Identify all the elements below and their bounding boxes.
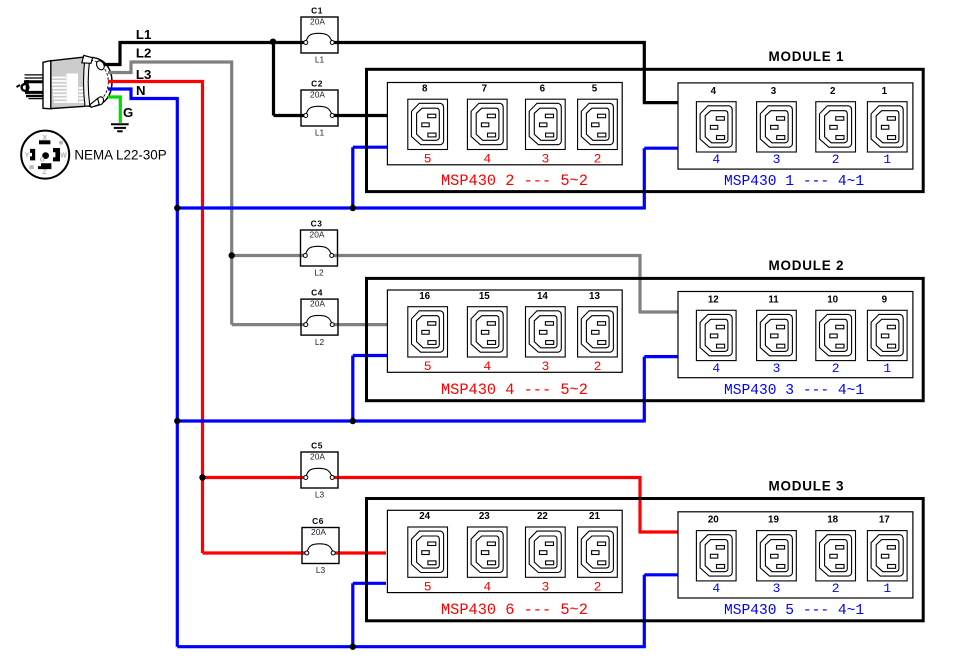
circuit breaker C2 (L1, 20A) bbox=[301, 78, 338, 137]
svg-text:L2: L2 bbox=[314, 268, 324, 278]
junction L2 split to C3/C4 bbox=[229, 252, 235, 258]
svg-text:C6: C6 bbox=[312, 516, 324, 526]
outlet 7 bbox=[467, 99, 507, 149]
svg-text:2: 2 bbox=[832, 361, 840, 376]
svg-text:16: 16 bbox=[419, 291, 430, 302]
svg-text:G: G bbox=[123, 105, 133, 120]
junction N rise to module 3 left bank bbox=[350, 644, 356, 650]
svg-text:1: 1 bbox=[883, 152, 891, 167]
outlet 16 bbox=[408, 307, 448, 357]
junction N at module 2 bus bbox=[174, 418, 180, 424]
svg-text:9: 9 bbox=[882, 294, 888, 305]
svg-text:C1: C1 bbox=[311, 5, 323, 15]
outlet 15 bbox=[467, 307, 507, 357]
module 2 right bank pin numbers (blue) bbox=[712, 361, 891, 376]
svg-text:4: 4 bbox=[712, 581, 720, 596]
svg-text:2: 2 bbox=[594, 152, 602, 167]
wire L3 branch to C6 and module 3 left bank bbox=[203, 476, 387, 553]
svg-text:3: 3 bbox=[541, 359, 549, 374]
outlet 23 bbox=[467, 527, 507, 577]
svg-text:1: 1 bbox=[883, 361, 891, 376]
plug NEMA L22-30P (cord cap illustration) bbox=[17, 55, 113, 108]
svg-text:2: 2 bbox=[832, 152, 840, 167]
svg-text:8: 8 bbox=[422, 83, 428, 94]
svg-text:2: 2 bbox=[594, 579, 602, 594]
svg-text:MODULE 1: MODULE 1 bbox=[769, 49, 845, 64]
circuit breaker C1 (L1, 20A) bbox=[301, 5, 338, 64]
module 2 left outlet bank box bbox=[387, 290, 622, 372]
svg-text:4: 4 bbox=[712, 152, 720, 167]
module 3 enclosure bbox=[367, 499, 924, 621]
svg-text:20A: 20A bbox=[311, 527, 326, 537]
circuit breaker C4 (L2, 20A) bbox=[301, 287, 338, 346]
svg-text:X: X bbox=[42, 135, 47, 142]
svg-text:3: 3 bbox=[541, 579, 549, 594]
svg-text:2: 2 bbox=[830, 86, 836, 97]
module 1 left outlet bank box bbox=[387, 83, 622, 165]
svg-text:20: 20 bbox=[708, 515, 719, 526]
wire L2 (gray) plug to C3 to module 2 right bank bbox=[108, 62, 678, 312]
svg-text:7: 7 bbox=[482, 83, 488, 94]
svg-text:C3: C3 bbox=[311, 218, 323, 228]
svg-text:3: 3 bbox=[773, 581, 781, 596]
svg-text:18: 18 bbox=[827, 515, 838, 526]
svg-text:MSP430 1 --- 4~1: MSP430 1 --- 4~1 bbox=[724, 174, 864, 190]
svg-text:19: 19 bbox=[768, 515, 779, 526]
outlet 20 bbox=[696, 531, 736, 581]
svg-text:5: 5 bbox=[592, 83, 598, 94]
svg-text:17: 17 bbox=[879, 515, 890, 526]
svg-text:MODULE 2: MODULE 2 bbox=[769, 258, 845, 273]
outlet 11 bbox=[757, 310, 797, 360]
svg-text:14: 14 bbox=[537, 291, 548, 302]
outlet 4 bbox=[696, 102, 736, 152]
svg-text:10: 10 bbox=[827, 294, 838, 305]
svg-text:12: 12 bbox=[708, 294, 719, 305]
svg-text:20A: 20A bbox=[310, 17, 325, 27]
junction L3 split to C5/C6 bbox=[199, 474, 205, 480]
outlet 10 bbox=[816, 310, 856, 360]
wire L1 (black) plug to C1 to module 1 right bank bbox=[104, 43, 678, 103]
outlet 24 bbox=[408, 527, 448, 577]
svg-text:MSP430 3 --- 4~1: MSP430 3 --- 4~1 bbox=[724, 383, 864, 399]
svg-text:4: 4 bbox=[483, 152, 491, 167]
outlet 3 bbox=[757, 102, 797, 152]
wire L1 branch to C2 and module 1 left bank bbox=[274, 43, 389, 116]
outlet 14 bbox=[526, 307, 566, 357]
svg-text:6: 6 bbox=[540, 83, 546, 94]
outlet 12 bbox=[696, 310, 736, 360]
svg-text:1: 1 bbox=[882, 86, 888, 97]
svg-text:MSP430 4 --- 5~2: MSP430 4 --- 5~2 bbox=[441, 381, 588, 399]
svg-text:3: 3 bbox=[773, 361, 781, 376]
circuit breaker C3 (L2, 20A) bbox=[301, 218, 338, 277]
svg-text:3: 3 bbox=[541, 152, 549, 167]
svg-text:L2: L2 bbox=[136, 45, 151, 60]
svg-text:L1: L1 bbox=[136, 27, 151, 42]
svg-text:L3: L3 bbox=[316, 565, 326, 575]
svg-text:15: 15 bbox=[479, 291, 490, 302]
junction N rise to module 1 left bank bbox=[350, 205, 356, 211]
svg-text:W: W bbox=[60, 153, 67, 160]
svg-text:N: N bbox=[136, 83, 146, 98]
svg-text:23: 23 bbox=[479, 511, 490, 522]
wire N (blue) main vertical from plug bbox=[108, 89, 177, 647]
wire N bus module 3 bbox=[177, 575, 677, 648]
ground symbol bbox=[111, 124, 129, 131]
svg-text:Y: Y bbox=[25, 153, 30, 160]
wire N bus module 1 bbox=[177, 147, 678, 209]
outlet 1 bbox=[867, 102, 907, 152]
svg-text:C4: C4 bbox=[311, 287, 323, 297]
svg-text:NEMA L22-30P: NEMA L22-30P bbox=[74, 147, 166, 162]
module 1 right bank pin numbers (blue) bbox=[712, 152, 891, 167]
svg-text:L2: L2 bbox=[315, 337, 325, 347]
svg-text:13: 13 bbox=[589, 291, 600, 302]
svg-text:4: 4 bbox=[712, 361, 720, 376]
svg-text:MODULE 3: MODULE 3 bbox=[769, 478, 845, 493]
module 1 enclosure bbox=[367, 69, 924, 191]
junction L1 split to C1/C2 bbox=[270, 39, 276, 45]
circuit breaker C6 (L3, 20A) bbox=[302, 516, 339, 575]
svg-text:20A: 20A bbox=[310, 90, 325, 100]
outlet 2 bbox=[816, 102, 856, 152]
svg-text:5: 5 bbox=[424, 359, 432, 374]
svg-text:11: 11 bbox=[768, 294, 779, 305]
wire N bus module 2 bbox=[177, 356, 677, 423]
svg-text:L3: L3 bbox=[136, 67, 151, 82]
circuit breaker C5 (L3, 20A) bbox=[301, 440, 338, 499]
svg-text:3: 3 bbox=[773, 152, 781, 167]
module 2 enclosure bbox=[367, 278, 924, 400]
svg-text:G: G bbox=[40, 157, 45, 164]
svg-text:C2: C2 bbox=[311, 78, 323, 88]
module 3 left bank pin numbers (red) bbox=[424, 579, 602, 594]
svg-text:MSP430 2 --- 5~2: MSP430 2 --- 5~2 bbox=[441, 172, 588, 190]
svg-text:L3: L3 bbox=[315, 490, 325, 500]
junction N rise to module 2 left bank bbox=[350, 418, 356, 424]
module 3 right bank pin numbers (blue) bbox=[712, 581, 891, 596]
outlet 13 bbox=[578, 307, 618, 357]
outlet 22 bbox=[526, 527, 566, 577]
svg-text:C5: C5 bbox=[311, 440, 323, 450]
outlet 8 bbox=[408, 99, 448, 149]
outlet 19 bbox=[757, 531, 797, 581]
svg-text:2: 2 bbox=[832, 581, 840, 596]
svg-text:21: 21 bbox=[589, 511, 600, 522]
svg-text:1: 1 bbox=[883, 581, 891, 596]
module 1 right outlet bank box bbox=[678, 83, 913, 169]
module 3 right outlet bank box bbox=[678, 512, 913, 598]
outlet 9 bbox=[867, 310, 907, 360]
wire G (green) from plug to ground bbox=[108, 97, 120, 123]
svg-text:24: 24 bbox=[419, 511, 430, 522]
svg-text:MSP430 5 --- 4~1: MSP430 5 --- 4~1 bbox=[724, 603, 864, 619]
module 2 right outlet bank box bbox=[678, 292, 913, 378]
module 2 left bank pin numbers (red) bbox=[424, 359, 602, 374]
svg-text:2: 2 bbox=[594, 359, 602, 374]
outlet 5 bbox=[578, 99, 618, 149]
junction N at module 1 bus bbox=[174, 205, 180, 211]
outlet 18 bbox=[816, 531, 856, 581]
svg-text:20A: 20A bbox=[310, 230, 325, 240]
svg-text:4: 4 bbox=[483, 359, 491, 374]
outlet 17 bbox=[867, 531, 907, 581]
svg-text:20A: 20A bbox=[310, 299, 325, 309]
svg-text:22: 22 bbox=[537, 511, 548, 522]
svg-text:MSP430 6 --- 5~2: MSP430 6 --- 5~2 bbox=[441, 601, 588, 619]
svg-text:3: 3 bbox=[771, 86, 777, 97]
svg-text:5: 5 bbox=[424, 152, 432, 167]
wire L2 branch to C4 and module 2 left bank bbox=[232, 254, 388, 325]
svg-text:4: 4 bbox=[711, 86, 717, 97]
svg-text:5: 5 bbox=[424, 579, 432, 594]
svg-text:Z: Z bbox=[42, 169, 47, 176]
receptacle face symbol NEMA L22-30 bbox=[21, 131, 69, 179]
outlet 6 bbox=[526, 99, 566, 149]
module 1 left bank pin numbers (red) bbox=[424, 152, 602, 167]
svg-text:20A: 20A bbox=[310, 452, 325, 462]
wire L3 (red) plug down to C5 to module 3 right bank bbox=[108, 82, 678, 533]
svg-text:L1: L1 bbox=[315, 55, 325, 65]
outlet 21 bbox=[578, 527, 618, 577]
svg-text:L1: L1 bbox=[315, 128, 325, 138]
module 3 left outlet bank box bbox=[387, 510, 622, 592]
svg-text:4: 4 bbox=[483, 579, 491, 594]
